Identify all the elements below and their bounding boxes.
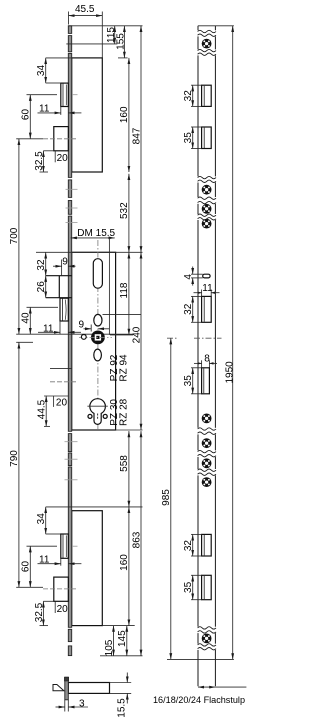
dimension 11 cutout width [194,283,220,296]
dimension 700 [9,139,133,334]
svg-text:45.5: 45.5 [75,4,95,15]
oblong slot [93,259,102,289]
cutout 32 upper [202,85,212,106]
dimension 105 [104,626,115,657]
svg-text:16/18/20/24 Flachstulp: 16/18/20/24 Flachstulp [153,695,245,705]
dimension 160 top [119,58,130,172]
screw hole [202,414,212,424]
break squiggle [197,197,217,204]
cutout 35 upper [202,127,212,149]
projection ticks on strip [65,95,78,547]
dimension 532 [119,174,130,253]
dimension 40 [21,307,58,334]
svg-text:32: 32 [183,303,194,315]
dimension 35 middle right [183,368,202,394]
vertical centerline main lock [97,240,99,429]
dimension 15.5 [110,673,132,718]
screw hole [202,219,212,229]
svg-text:155: 155 [116,33,127,50]
break squiggle [197,469,217,475]
handle follower [79,331,112,345]
small circle [81,335,86,340]
deadbolt guide lines near cylinder [50,367,72,369]
svg-text:700: 700 [9,227,20,244]
oval below follower [94,349,102,361]
dimension 9 mid [79,320,110,332]
svg-text:35: 35 [183,132,194,144]
screw hole [202,458,212,468]
dimension 558 [119,431,130,507]
bottom aux lock case [72,511,103,626]
screw hole [202,204,212,214]
dimension 44.5 [37,396,50,427]
dimension 8 cutout width [194,354,217,368]
cutout 35 lower [202,575,212,599]
break squiggle [197,644,217,650]
hook bolt top aux lock [61,83,69,106]
svg-text:RZ 94: RZ 94 [118,354,129,382]
svg-text:20: 20 [57,604,69,615]
dimension 790 [9,342,43,587]
dimension 11 mid [38,321,81,335]
svg-text:32: 32 [183,540,194,552]
break squiggle [197,49,217,55]
profile cylinder [87,399,107,425]
deadbolt bottom aux lock [54,577,69,601]
extension line main case bottom [116,429,143,431]
svg-text:DM 15.5: DM 15.5 [77,228,115,239]
deadbolt top aux lock [54,127,69,151]
screw hole [202,477,212,487]
screw hole [202,634,212,644]
dimension 32.5 top [34,151,48,172]
dimension 35 upper right [183,127,202,149]
dimension 240 [131,252,142,430]
small oval [94,314,102,326]
extension line main case top [36,251,143,253]
dimension 160 bottom [119,507,130,626]
extension line oval top [103,314,142,316]
small slot 4 [203,274,210,278]
dimension 20 top [43,151,68,164]
faceplate strip right [198,26,215,660]
dimension 32 middle right [183,296,202,322]
dimension 32.5 bottom [34,601,48,625]
main lock case [72,252,116,430]
dimension 34 top [36,58,72,83]
strip tail [198,660,215,687]
PZ RZ labels [109,354,129,426]
svg-text:20: 20 [57,153,69,164]
break squiggle [197,450,217,457]
dimension 3 [56,698,89,711]
top aux lock case [72,58,103,172]
svg-text:20: 20 [56,397,68,408]
dimension 35 lower right [183,575,202,599]
squiggle breaks [197,30,217,650]
svg-text:RZ 28: RZ 28 [118,398,129,426]
svg-text:9: 9 [62,256,68,267]
svg-text:790: 790 [9,450,20,467]
break squiggle [197,428,217,435]
extension line 118 end [110,334,133,336]
screw hole [202,39,212,49]
svg-text:15.5: 15.5 [116,698,127,718]
cutout 32 middle [202,296,212,322]
strip top extension line [68,25,142,27]
faceplate width dimension [198,686,246,688]
strip top line [198,25,234,27]
faceplate cross-section [65,677,69,700]
extension line strip bottom left [100,655,143,657]
svg-text:32: 32 [183,90,194,102]
DM 15.5 callout [71,228,116,335]
dimension 60 top [21,95,57,139]
dimension 32 upper right [183,85,202,106]
svg-text:35: 35 [183,375,194,387]
break squiggle [197,214,217,220]
dimension 115 [66,26,117,44]
latch tip bottom view [53,685,64,691]
screw hole [202,438,212,448]
dimension 32 mid [36,252,47,275]
dimension 145 [117,626,128,656]
extension line case bottom [102,625,134,627]
dimension 985 [161,338,172,659]
dimension 1950 [224,26,235,660]
screw holes [202,39,212,644]
latch bolt main lock [60,298,68,321]
screw hole [202,185,212,195]
cutout 35 middle [202,368,210,394]
dimension 863 [131,431,142,656]
svg-text:1950: 1950 [224,361,235,384]
break squiggle [197,30,217,36]
dimension 9 upper [53,256,76,275]
dimension 26 mid [36,276,47,298]
faceplate strip (left drawing, with break gaps) [68,26,71,656]
break squiggle [197,176,217,182]
svg-text:35: 35 [183,581,194,593]
centerline deadbolt bottom [43,588,78,590]
dimension 11 bottom [38,554,82,565]
centerline deadbolt top [43,138,78,140]
guide block left of strip [46,276,72,298]
cutout 32 lower [202,534,212,556]
dimension 32 lower right [183,534,202,556]
dimension 155 [116,26,128,58]
dimension 60 bottom [21,546,57,587]
handle height centerline [167,337,222,339]
lock case bottom view [68,683,109,694]
dimension 118 [119,252,130,335]
dimension 11 top [38,104,82,115]
dimension 34 bottom [36,507,142,534]
svg-text:3: 3 [79,698,85,709]
dimension 20 cylinder [44,396,68,408]
hook bolt bottom aux lock [61,534,69,558]
dimension 4 [183,267,203,286]
dimension 20 bottom [43,601,68,615]
break squiggle [197,627,217,633]
dimension 45.5 top [69,4,103,57]
strip bottom extension [167,658,234,660]
dimension 847 [131,26,142,253]
